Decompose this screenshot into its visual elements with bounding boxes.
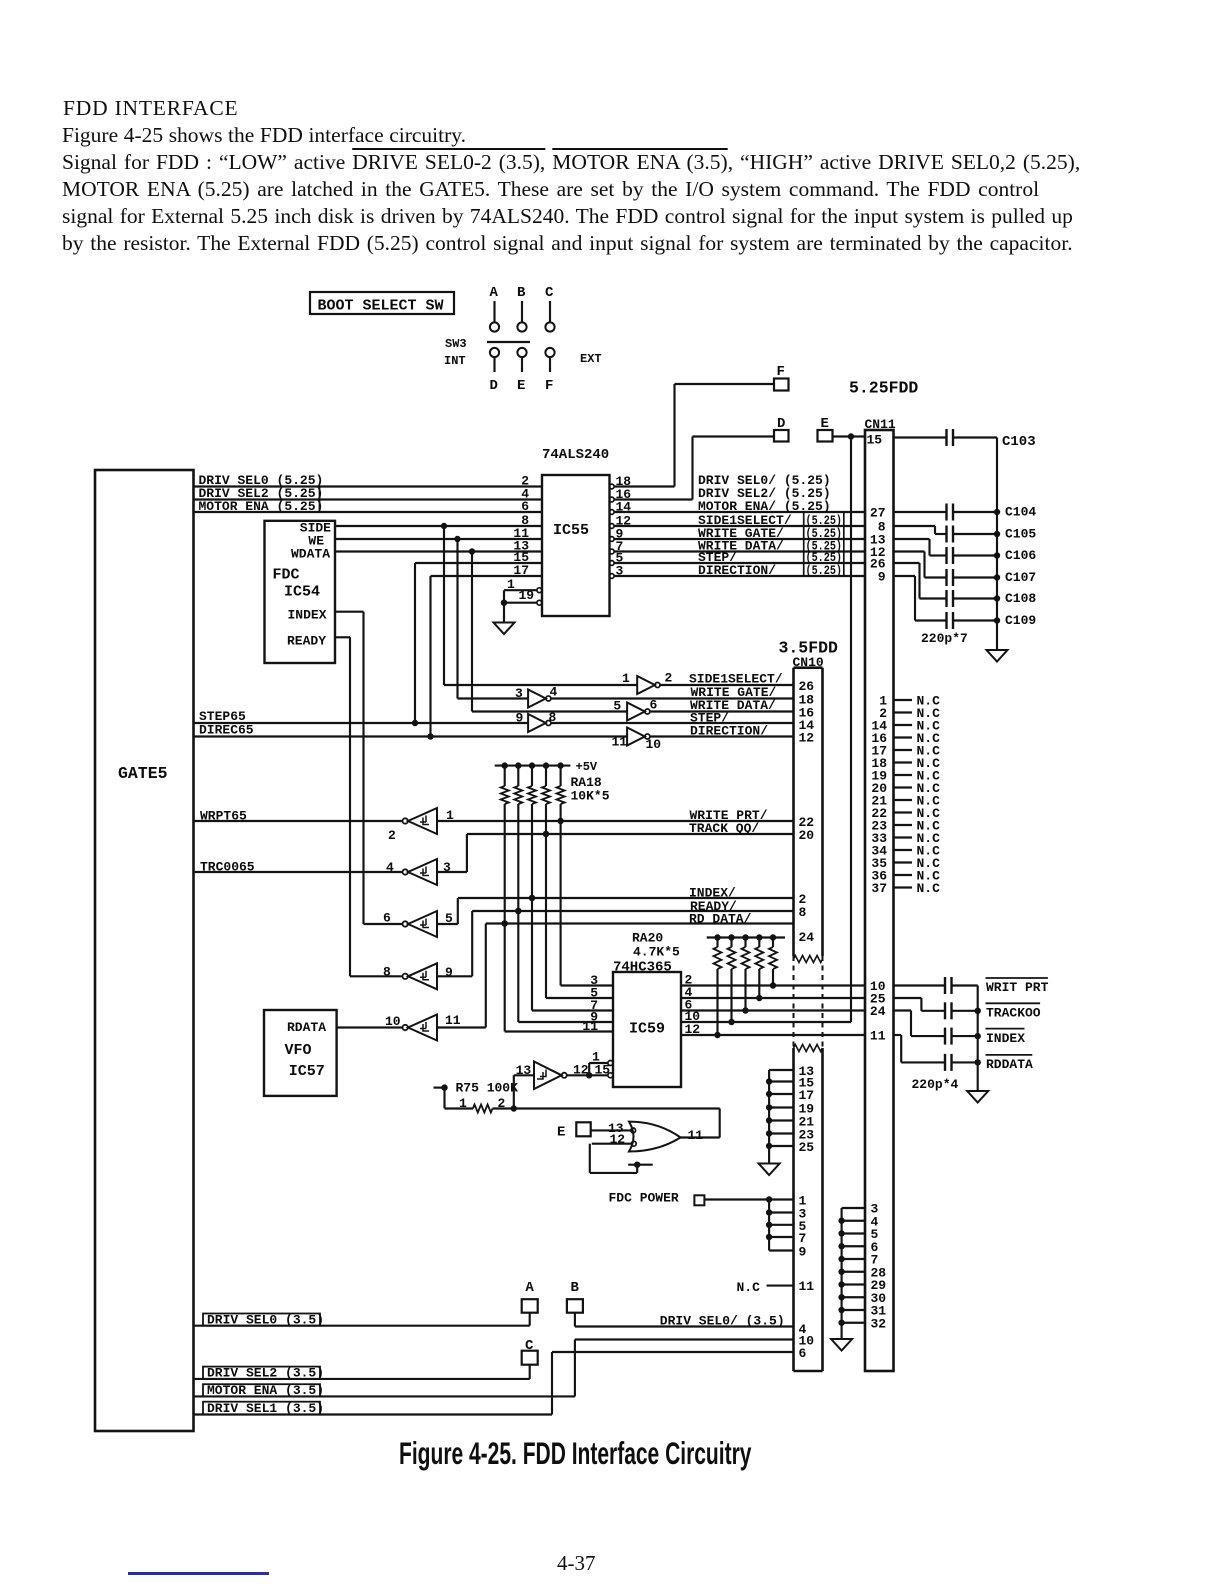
net label WRITE GATE/ (3.5 side)	[691, 685, 777, 700]
net label WRITE GATE/ (5.25)	[698, 526, 842, 541]
header text block	[63, 96, 238, 121]
svg-text:4.7K*5: 4.7K*5	[633, 945, 680, 960]
IC54 pin label WE	[308, 534, 324, 549]
net label STEP/ (5.25)	[698, 550, 842, 565]
svg-text:INT: INT	[444, 354, 466, 368]
svg-text:2: 2	[665, 671, 673, 686]
IC57 pin label RDATA	[287, 1020, 326, 1035]
wire DRIV SEL2 (5.25) GATE5 to IC55 pin4	[194, 498, 543, 500]
wire WRITE DATA/ (5.25) IC55 to CN11	[614, 550, 865, 552]
power +5V label	[576, 760, 598, 774]
IC55 right pin bubbles and numbers 18 16 14 12 9 7 5 3	[609, 474, 631, 579]
capacitor C108	[894, 563, 1037, 607]
IC GATE5 (gate array) body	[95, 470, 194, 1431]
svg-text:24: 24	[870, 1004, 886, 1019]
net label SIDE1SELECT/ (3.5 side)	[689, 672, 783, 687]
resistor R75 label	[456, 1081, 519, 1096]
svg-text:C107: C107	[1005, 570, 1036, 585]
net label TRC0065	[200, 860, 255, 875]
svg-text:FDC POWER: FDC POWER	[609, 1191, 679, 1206]
schmitt inverter 8-9 READY	[383, 963, 453, 989]
resistor RA18 element at x=504.7	[501, 766, 509, 927]
net label DRIV SEL0/ (5.25)	[698, 473, 831, 488]
svg-text:C109: C109	[1005, 613, 1036, 628]
wire OR gate output 11	[681, 1136, 720, 1138]
CN11 N.C pins 1 2 14 16-23 33-37	[871, 694, 940, 897]
CN11 pin numbers 10 25 24 11	[870, 979, 886, 1044]
IC54 name FDC	[273, 567, 300, 584]
net label N.C at CN10 pin11	[737, 1280, 794, 1295]
svg-text:DRIV SEL0/ (3.5): DRIV SEL0/ (3.5)	[660, 1314, 785, 1329]
switch SW3 pole B-E	[517, 285, 527, 394]
net label TRACK QQ/	[689, 821, 759, 836]
wire jumper E to CN11 pin15 and riser down	[833, 433, 866, 1022]
svg-text:WRIT PRT: WRIT PRT	[986, 980, 1049, 995]
wire TRC0065 to GATE5	[194, 871, 403, 873]
svg-text:VFO: VFO	[285, 1042, 312, 1059]
inverter buffer 11-10 DIRECTION	[612, 728, 794, 753]
wire MOTOR ENA (3.5) to CN10 pin10	[194, 1340, 794, 1397]
IC U-74HC365 IC59 body	[613, 972, 681, 1087]
svg-text:+5V: +5V	[576, 760, 598, 774]
jumper pad A	[522, 1280, 538, 1313]
wire riser x=532 to IC59 input	[532, 898, 613, 1011]
svg-text:11: 11	[799, 1279, 815, 1294]
svg-text:11: 11	[445, 1013, 461, 1028]
IC54 refdes IC54	[284, 584, 320, 601]
svg-text:220p*7: 220p*7	[921, 631, 968, 646]
net label STEP/ (3.5 side)	[690, 711, 729, 726]
resistor RA20 element at x=745.5	[742, 938, 750, 1014]
wire R75 net to OR gate output	[514, 1109, 720, 1138]
svg-text:37: 37	[871, 881, 887, 896]
CN10 pin numbers	[799, 679, 815, 1361]
svg-text:6: 6	[799, 1346, 807, 1361]
wire DRIV SEL0/ (5.25) pin18 to jumper F	[614, 384, 774, 487]
svg-text:74ALS240: 74ALS240	[542, 447, 609, 463]
svg-text:24: 24	[799, 930, 815, 945]
inverter buffer 9-8 STEP	[516, 710, 794, 732]
net label MOTOR ENA (3.5) box	[203, 1383, 324, 1398]
wire MOTOR ENA (5.25) GATE5 to IC55 pin6	[194, 511, 543, 513]
ground below lower cap rail	[967, 1091, 988, 1103]
switch SW3 common bar	[487, 341, 530, 343]
svg-text:12: 12	[799, 731, 815, 746]
capacitor C109	[894, 576, 1037, 629]
wire DIRECTION/ (5.25) IC55 to CN11	[614, 575, 865, 577]
wire TRACK row elbow and to CN10 pin20	[437, 831, 794, 872]
wire IC59 pin6 to CN11 pin24	[681, 1009, 865, 1011]
wire E pad to OR input 13	[591, 1129, 634, 1131]
wire IC59 pin4 to CN11 pin25	[681, 997, 865, 999]
svg-text:INDEX: INDEX	[288, 608, 327, 623]
net label DIREC65	[199, 723, 254, 738]
svg-text:RD DATA/: RD DATA/	[689, 912, 752, 927]
capacitor C104	[894, 504, 1037, 521]
CN11 pin numbers 27 8 13 12 26 9	[870, 506, 886, 585]
svg-text:8: 8	[799, 905, 807, 920]
wire INDEX IC54 down to inverter 6	[335, 612, 364, 924]
svg-text:N.C: N.C	[917, 881, 941, 896]
net label DIRECTION/ (3.5 side)	[690, 724, 768, 739]
resistor RA20 element at x=717.5	[714, 938, 722, 1039]
IC U-74HC365 title	[613, 960, 672, 976]
IC55 pins 1 19 enable loop to ground	[501, 588, 542, 623]
schmitt inverter 2-1 WRPT65	[388, 808, 454, 843]
IC55 pin1 number	[507, 577, 515, 592]
capacitor C105	[894, 526, 1037, 543]
net label FDC POWER	[609, 1191, 679, 1206]
switch SW3 label	[445, 337, 467, 351]
switch SW3 name box BOOT SELECT SW	[310, 292, 454, 315]
inverter buffer 1-2 SIDE1SELECT	[444, 526, 794, 694]
svg-text:EXT: EXT	[580, 352, 602, 366]
jumper pad B	[567, 1280, 583, 1313]
RA20 common bus	[707, 934, 785, 940]
svg-text:IC55: IC55	[553, 522, 589, 539]
resistor RA18 element at x=546	[542, 766, 550, 838]
IC59 refdes	[629, 1021, 665, 1038]
resistor RA18 element at x=532	[528, 766, 536, 902]
svg-text:9: 9	[445, 965, 453, 980]
wire IC59 pin12 to CN11 pin11	[681, 1034, 865, 1036]
svg-text:C108: C108	[1005, 591, 1036, 606]
switch SW3 pole C-F	[545, 285, 555, 394]
ground below CN10 odd pin bus	[759, 1164, 780, 1176]
capacitor C106	[894, 539, 1037, 564]
net label MOTOR ENA (5.25) box	[199, 499, 324, 514]
svg-text:IC59: IC59	[629, 1021, 665, 1038]
svg-text:DIRECTION/: DIRECTION/	[698, 563, 776, 578]
connector CN11 body	[865, 430, 894, 1371]
connector CN10 label	[793, 655, 824, 670]
svg-text:GATE5: GATE5	[118, 764, 168, 783]
svg-text:D: D	[490, 378, 498, 394]
wire DRIV SEL2/ (5.25) pin16 to jumper D	[614, 437, 774, 500]
switch SW3 INT label	[444, 354, 466, 368]
IC GATE5 label	[118, 764, 168, 783]
IC55 refdes	[553, 522, 589, 539]
svg-text:DIRECTION/: DIRECTION/	[690, 724, 768, 739]
wire READY row elbow to CN10 pin8	[437, 908, 794, 977]
svg-text:20: 20	[799, 828, 815, 843]
resistor RA18 element at x=560.6	[557, 766, 565, 825]
resistor RA20 element at x=731.5	[728, 938, 736, 1026]
net label WRITE DATA/ (5.25)	[698, 539, 842, 554]
wire READY IC54 down to inverter 8	[335, 637, 350, 976]
svg-text:INDEX: INDEX	[986, 1031, 1025, 1046]
svg-text:9: 9	[878, 570, 886, 585]
svg-text:N.C: N.C	[737, 1280, 761, 1295]
svg-text:BOOT SELECT SW: BOOT SELECT SW	[318, 298, 444, 315]
wire OR input 12 loop	[590, 1144, 653, 1173]
jumper pad F	[774, 364, 789, 391]
svg-text:6: 6	[521, 499, 529, 514]
wire riser x=504.7 to IC59 input	[505, 924, 613, 1032]
inverter buffer 5-6 WRITE DATA	[472, 552, 794, 721]
wire MOTOR ENA/ (5.25) pin14 to CN11 pin27	[614, 511, 865, 513]
schmitt inverter 4-3 TRC0065	[386, 859, 451, 885]
svg-text:RA20: RA20	[632, 931, 663, 946]
svg-text:MOTOR ENA/ (5.25): MOTOR ENA/ (5.25)	[698, 499, 831, 514]
svg-text:2: 2	[498, 1096, 506, 1111]
jumper pad D	[774, 416, 789, 442]
wire WRITE PRT/ row buffer input to CN10 pin22	[437, 820, 794, 822]
wire STEP/ (5.25) IC55 to CN11	[614, 562, 865, 564]
svg-text:FDC: FDC	[273, 567, 300, 584]
svg-text:RDATA: RDATA	[287, 1020, 326, 1035]
svg-text:32: 32	[871, 1316, 887, 1331]
IC57 name VFO	[285, 1042, 312, 1059]
CN11 pin 15 number	[867, 433, 883, 448]
svg-text:6: 6	[650, 698, 658, 713]
IC54 pin label WDATA	[291, 547, 330, 562]
wire schmitt 13 input riser	[511, 1075, 534, 1111]
svg-text:5.25FDD: 5.25FDD	[849, 379, 918, 398]
svg-text:220p*4: 220p*4	[912, 1077, 959, 1092]
wire IC59 pin2 to CN11 pin10	[681, 984, 865, 986]
svg-text:TRACK QQ/: TRACK QQ/	[689, 821, 759, 836]
svg-text:A: A	[525, 1280, 534, 1296]
svg-text:10: 10	[646, 737, 662, 752]
svg-text:DIREC65: DIREC65	[199, 723, 254, 738]
schmitt inverter 13-12 near IC59	[516, 1062, 567, 1090]
svg-text:1: 1	[622, 671, 630, 686]
net label RD DATA/	[689, 912, 752, 927]
label 220p*4	[912, 1077, 959, 1092]
wire SIDE IC54 to IC55 pin8	[335, 523, 542, 529]
OR gate U 13-12-11	[608, 1121, 703, 1152]
wire DIREC65 GATE5 to buffer 11	[194, 735, 628, 737]
net label WRITE DATA/ (3.5 side)	[690, 698, 776, 713]
svg-text:9: 9	[799, 1245, 807, 1260]
ground below IC55	[494, 623, 515, 635]
svg-text:4: 4	[550, 685, 558, 700]
label 3.5FDD	[779, 639, 839, 658]
svg-text:B: B	[571, 1280, 580, 1296]
svg-text:RDDATA: RDDATA	[986, 1057, 1033, 1072]
capacitor C103	[894, 429, 1036, 450]
svg-text:B: B	[517, 285, 526, 301]
CN10 break squiggle bottom	[794, 1045, 823, 1052]
RA18 +5V bus	[495, 762, 571, 768]
wire DRIV SEL0 (5.25) GATE5 to IC55 pin2	[194, 485, 543, 487]
wire STEP65 GATE5 to buffer 9	[194, 722, 529, 724]
net label DRIV SEL2 (3.5) box	[203, 1366, 324, 1381]
label 5.25FDD	[849, 379, 918, 398]
svg-text:2: 2	[388, 828, 396, 843]
wire DRIV SEL1 (3.5) to CN10 pin6	[194, 1352, 794, 1415]
wire WE IC54 to IC55 pin11	[335, 536, 542, 542]
net label SIDE1SELECT/ (5.25)	[698, 513, 842, 528]
switch SW3 EXT label	[580, 352, 602, 366]
net label READY/	[690, 899, 737, 914]
wire RD DATA row elbow to CN10 pin24	[437, 920, 794, 1027]
IC59 right pin numbers 2 4 6 10 12	[685, 973, 701, 1038]
svg-text:SW3: SW3	[445, 337, 467, 351]
connector CN11 label	[865, 417, 896, 432]
inverter buffer 3-4 WRITE GATE	[458, 539, 794, 708]
svg-text:10K*5: 10K*5	[571, 789, 610, 804]
ground below CN11 pin bus	[831, 1339, 852, 1351]
resistor RA20 element at x=759.3	[755, 938, 763, 1002]
svg-text:A: A	[490, 285, 499, 301]
svg-text:11: 11	[870, 1029, 886, 1044]
svg-text:E: E	[557, 1125, 565, 1141]
wire DRIV SEL0/ (3.5) jumper B to CN10 pin4	[575, 1313, 794, 1327]
resistor network RA18 label	[571, 775, 610, 804]
svg-text:C106: C106	[1005, 548, 1036, 563]
wire riser x=560.6 to IC59 input	[561, 821, 613, 986]
FDC POWER pad	[694, 1195, 704, 1205]
IC55 pin19 number	[519, 588, 535, 603]
IC59 pin1 pin15 bubbles and numbers	[573, 1050, 613, 1078]
jumper pad C	[522, 1338, 538, 1365]
IC55 left pin numbers 2 4 6 8 11 13 15 17	[513, 474, 529, 579]
wire riser x=546 to IC59 input	[546, 834, 613, 998]
jumper pad E input	[557, 1122, 591, 1140]
capacitor 220p WRIT PRT	[894, 977, 1049, 995]
wire inverter6 output up to IC54 INDEX	[364, 923, 403, 925]
svg-text:C105: C105	[1005, 527, 1036, 542]
net label DIRECTION/ (5.25)	[698, 563, 842, 578]
wire SIDE1SELECT/ (5.25) IC55 to CN11	[614, 525, 865, 527]
net label MOTOR ENA/ (5.25)	[698, 499, 831, 514]
wire inverter10 output to VFO IC57 RDATA	[337, 1026, 403, 1028]
IC57 refdes IC57	[289, 1063, 325, 1080]
IC54 pin label READY	[287, 634, 326, 649]
page number	[557, 1551, 596, 1576]
svg-text:C: C	[545, 285, 554, 301]
wire riser x=518.3 to IC59 input	[518, 911, 613, 1022]
IC VFO IC57 body	[264, 1010, 337, 1096]
IC54 pin label SIDE	[300, 521, 331, 536]
wire INDEX row elbow to CN10 pin2	[437, 895, 794, 924]
IC54 pin label INDEX	[288, 608, 327, 623]
wire WRITE GATE/ (5.25) IC55 to CN11	[614, 538, 865, 540]
svg-text:TRACKOO: TRACKOO	[986, 1006, 1041, 1021]
wire WRPT65 to GATE5	[194, 820, 403, 822]
resistor network RA20 label	[632, 931, 680, 960]
svg-text:C104: C104	[1005, 505, 1036, 520]
schmitt inverter 10-11 RDATA	[385, 1013, 461, 1041]
ground below C109 rail	[987, 650, 1008, 662]
wire inverter8 output up to IC54 READY	[350, 975, 403, 977]
IC U-74ALS240 title	[542, 447, 609, 463]
net label STEP65	[199, 709, 246, 724]
net label WRITE PRT/	[690, 808, 768, 823]
schmitt inverter 6-5 INDEX	[383, 911, 453, 938]
svg-text:25: 25	[799, 1140, 815, 1155]
wire WDATA IC54 to IC55 pin13	[335, 548, 542, 554]
net label DRIV SEL1 (3.5) box	[203, 1401, 324, 1416]
IC U-FDC IC54 body	[265, 521, 336, 663]
svg-text:15: 15	[867, 433, 883, 448]
svg-text:E: E	[517, 378, 525, 394]
net label DRIV SEL0 (5.25)	[199, 473, 324, 488]
IC55 pin15 wire from STEP riser	[412, 563, 542, 726]
wire IC59 pin10 to jumper E riser	[681, 1021, 851, 1023]
capacitor 220p TRACKOO	[894, 998, 1041, 1021]
wire DRIV SEL2 (3.5) to jumper C	[194, 1365, 530, 1379]
svg-text:IC54: IC54	[284, 584, 320, 601]
resistor RA20 element at x=773	[769, 938, 777, 989]
IC59 left pin numbers 3 5 7 9 11	[582, 973, 598, 1034]
svg-text:1: 1	[459, 1096, 467, 1111]
wire lower cap ground rail	[977, 986, 979, 1092]
svg-text:C103: C103	[1002, 434, 1036, 450]
CN10 break squiggle top	[794, 956, 823, 963]
svg-text:IC57: IC57	[289, 1063, 325, 1080]
resistor RA18 element at x=518.3	[514, 766, 522, 915]
net label DRIV SEL2 (5.25) box	[199, 486, 324, 501]
decorative blue rule	[128, 1572, 269, 1575]
jumper pad E	[818, 416, 833, 442]
svg-text:11: 11	[688, 1128, 704, 1143]
net label INDEX/	[689, 886, 736, 901]
connector CN10 body with break	[794, 668, 823, 1371]
svg-text:(5.25): (5.25)	[806, 563, 843, 578]
svg-text:READY: READY	[287, 634, 326, 649]
wire DRIV SEL0 (3.5) to jumper A	[194, 1313, 530, 1326]
svg-text:R75 100K: R75 100K	[456, 1081, 519, 1096]
net label DRIV SEL0 (3.5) box	[203, 1313, 324, 1328]
svg-text:WDATA: WDATA	[291, 547, 330, 562]
IC U-74ALS240 IC55 body	[542, 475, 610, 616]
label emphasis boxes around (5.25) column	[804, 512, 844, 576]
wire schmitt 13-12 output to IC59 pins 1 15	[567, 1063, 608, 1079]
wire capacitor ground rail top	[996, 438, 998, 651]
capacitor C107	[894, 552, 1037, 587]
svg-text:F: F	[545, 378, 553, 394]
capacitor 220p RDDATA	[894, 1035, 1034, 1072]
net label DRIV SEL0/ (3.5)	[660, 1314, 785, 1329]
CN10 odd pins 13-25 ground bus	[766, 1070, 794, 1164]
figure caption	[399, 1437, 751, 1473]
IC55 pin17 wire from DIREC riser	[427, 576, 542, 740]
capacitor 220p INDEX	[894, 1011, 1026, 1047]
label 220p*7	[921, 631, 968, 646]
net label DRIV SEL2/ (5.25)	[698, 486, 831, 501]
switch SW3 pole A-D	[490, 285, 500, 394]
net label WRPT65	[200, 809, 247, 824]
svg-text:27: 27	[870, 506, 886, 521]
wire FDC POWER to CN10 pins 1 3 5 7 9	[704, 1196, 793, 1250]
resistor R75 with stub	[434, 1084, 514, 1112]
CN11 grounded pins 3 4 5 6 7 28 29 30 31 32 bus	[838, 1202, 886, 1340]
